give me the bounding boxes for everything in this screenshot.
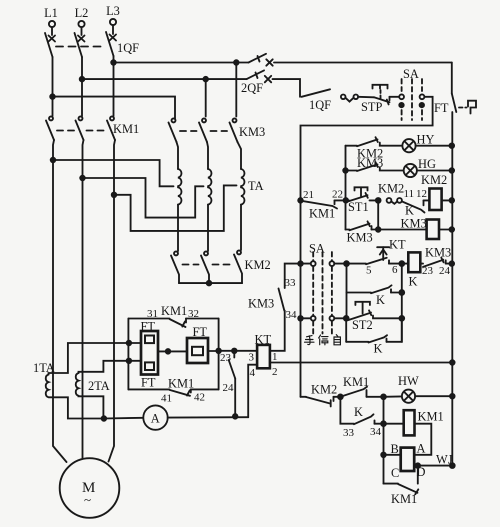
node KM2-branch junction bbox=[376, 198, 381, 203]
svg-text:KM1: KM1 bbox=[161, 304, 187, 318]
svg-text:1QF: 1QF bbox=[117, 41, 139, 55]
wire phase A vertical (1QF to KM1) bbox=[52, 57, 54, 116]
svg-text:SA: SA bbox=[403, 67, 419, 81]
contact K self-hold (lower) bbox=[346, 335, 387, 355]
transformer TA coil1 bbox=[178, 169, 181, 205]
wire column A (under node 346.5) bbox=[346, 264, 348, 319]
wire K lower to column B bbox=[387, 318, 402, 342]
thermal relay FT contact (right rail) bbox=[434, 63, 476, 466]
svg-text:KM2: KM2 bbox=[311, 383, 337, 397]
node L1 terminal bbox=[44, 6, 58, 35]
wire HW to rail bbox=[415, 395, 452, 397]
contact KM1 self-hold bbox=[340, 375, 383, 397]
contact KM2 NC (11-12 row) bbox=[378, 182, 404, 204]
pushbutton STP (stop) bbox=[361, 85, 390, 114]
svg-text:5: 5 bbox=[366, 265, 372, 277]
contact KM3 23-24 bbox=[420, 246, 451, 277]
wire row-A to KM3 33 branch bbox=[285, 264, 301, 288]
node 23 junction bbox=[232, 349, 237, 354]
svg-text:KM1: KM1 bbox=[113, 122, 139, 136]
wire TA tap2 bbox=[83, 178, 204, 218]
svg-text:~: ~ bbox=[84, 492, 91, 507]
coil KM3 bbox=[401, 217, 440, 240]
wire L3 line to right rail bbox=[274, 62, 452, 64]
svg-text:KM3: KM3 bbox=[401, 217, 427, 231]
contact KM1 21-22 bbox=[301, 189, 344, 221]
wire phase B vertical (1QF to KM1) bbox=[81, 57, 83, 116]
svg-text:2QF: 2QF bbox=[241, 81, 263, 95]
svg-text:KM1: KM1 bbox=[168, 377, 194, 391]
contact KM1 NC (bottom loop) bbox=[384, 466, 419, 506]
contactor KM1 main poles bbox=[46, 116, 139, 140]
wire KT pin4 bbox=[248, 365, 257, 418]
wire KM3 pole3 feed bbox=[235, 63, 237, 117]
svg-text:33: 33 bbox=[285, 277, 297, 289]
wire motor line A bbox=[53, 140, 67, 462]
glyph hand (shou) bbox=[305, 336, 315, 345]
svg-text:KM3: KM3 bbox=[248, 297, 274, 311]
wire L2 line to control feed corner bbox=[273, 79, 301, 97]
svg-text:24: 24 bbox=[439, 265, 451, 277]
svg-text:HY: HY bbox=[417, 133, 435, 147]
node TA tap1 junction bbox=[51, 158, 56, 163]
wire lamp sub-rail bbox=[345, 146, 347, 230]
contact KM1 31-32 (box top) bbox=[128, 304, 218, 327]
node K branch junction bbox=[399, 261, 404, 266]
node SA row-A rail junction bbox=[298, 261, 303, 266]
wire KM1 coil to WJ A terminal bbox=[414, 424, 431, 455]
svg-text:FT: FT bbox=[434, 101, 449, 115]
label SA handle positions bbox=[305, 335, 341, 345]
wire phase C vertical (1QF to KM1) bbox=[113, 56, 115, 116]
svg-text:ST1: ST1 bbox=[348, 200, 369, 214]
transformer TA coil2 bbox=[208, 169, 211, 205]
wire KM3 coil to rail bbox=[439, 229, 452, 231]
motor M bbox=[60, 458, 120, 518]
node HY rail junction bbox=[450, 143, 455, 148]
wire to KM1 coil bbox=[384, 423, 404, 425]
node SA row-B rail junction bbox=[298, 316, 303, 321]
svg-text:34: 34 bbox=[286, 309, 298, 321]
node K row rail junction bbox=[450, 261, 455, 266]
lamp HG row: contact KM3 bbox=[346, 156, 404, 171]
svg-text:K: K bbox=[374, 342, 383, 356]
transformer 2TA secondary loop bbox=[76, 361, 129, 419]
svg-text:K: K bbox=[376, 293, 385, 307]
wire motor line C bbox=[109, 140, 116, 462]
wire KT pin3 bbox=[219, 350, 258, 352]
svg-text:HW: HW bbox=[398, 374, 419, 388]
wire KM2 star bus bbox=[179, 282, 242, 284]
svg-text:3: 3 bbox=[249, 352, 255, 364]
transformer 1TA secondary loop bbox=[33, 343, 129, 419]
coil K bbox=[408, 252, 420, 288]
node TA tap3 junction bbox=[112, 193, 117, 198]
node L2 branch junction bbox=[80, 77, 85, 82]
heater FT element 1 (double) bbox=[127, 320, 171, 390]
svg-text:KM3: KM3 bbox=[425, 246, 451, 260]
node KM3 coil branch junction bbox=[376, 227, 381, 232]
svg-text:A: A bbox=[151, 412, 160, 426]
svg-text:KM3: KM3 bbox=[239, 125, 265, 139]
svg-text:24: 24 bbox=[223, 382, 235, 394]
wire ammeter right to KT pin4 bbox=[168, 416, 249, 418]
svg-text:KM2: KM2 bbox=[421, 173, 447, 187]
node WJ B junction bbox=[381, 453, 386, 458]
svg-text:KM1: KM1 bbox=[418, 410, 444, 424]
node L1 branch junction bbox=[50, 94, 55, 99]
svg-text:KM3: KM3 bbox=[347, 231, 373, 245]
node KM2/KM1 junction bbox=[338, 394, 343, 399]
node KM1 row left rail junction bbox=[298, 198, 303, 203]
wire STP to SA bbox=[390, 96, 400, 98]
wire to HW lamp bbox=[384, 395, 402, 397]
switch SA dashed position lines bbox=[313, 252, 332, 334]
wire 6 to K coil bbox=[389, 263, 408, 265]
wire TA coil2 to KM2 pole2 bbox=[207, 205, 209, 251]
svg-text:31: 31 bbox=[147, 308, 158, 320]
transformer TA coil3 bbox=[241, 169, 244, 205]
wire KM3 pole1 to TA coil1 bbox=[177, 142, 179, 169]
contact KM3 33-34 bbox=[248, 289, 297, 322]
wire branch down to KM3 coil row bbox=[377, 200, 379, 229]
switch SA row-B contacts bbox=[301, 316, 347, 321]
lamp HW bbox=[398, 374, 419, 403]
wire TA tap1 bbox=[53, 160, 174, 186]
svg-text:HG: HG bbox=[418, 157, 436, 171]
node KM3 pole2 tap junction bbox=[203, 77, 208, 82]
svg-text:K: K bbox=[405, 204, 414, 218]
node row-A column junction bbox=[344, 261, 349, 266]
wire 1QF to STP bbox=[358, 96, 374, 99]
node row-B column junction bbox=[344, 316, 349, 321]
node D loop junction bbox=[416, 463, 421, 468]
glyph auto (zi) bbox=[334, 335, 340, 345]
wire column B (under node 401.8) bbox=[401, 264, 403, 342]
node L3 terminal bbox=[106, 4, 120, 34]
contact KM1 41-42 (box bottom) bbox=[128, 377, 218, 405]
svg-text:11: 11 bbox=[404, 188, 415, 200]
wire ammeter left bbox=[104, 417, 143, 420]
svg-text:4: 4 bbox=[250, 367, 256, 379]
wire 12 to KM2 coil bbox=[424, 199, 430, 201]
wire KM3 contact to coil bbox=[372, 229, 427, 231]
wire 22 to sub-rail node bbox=[335, 199, 350, 201]
node K row column junction bbox=[399, 290, 404, 295]
svg-text:KM2: KM2 bbox=[378, 182, 404, 196]
wire KM3 pole2 feed bbox=[205, 79, 207, 116]
wire ST1 to node bbox=[370, 199, 379, 201]
wire TA coil1 to KM2 pole1 bbox=[177, 205, 179, 251]
wire KM3 pole2 to TA coil2 bbox=[207, 142, 208, 169]
wire KT pin2 to rail bbox=[270, 362, 452, 364]
contact KM3 self-hold bbox=[346, 221, 373, 244]
node ammeter wire junction bbox=[233, 414, 238, 419]
svg-text:L2: L2 bbox=[75, 6, 89, 20]
node HG sub-rail junction bbox=[343, 168, 348, 173]
svg-text:1QF: 1QF bbox=[309, 98, 331, 112]
svg-text:KM1: KM1 bbox=[391, 492, 417, 506]
heater FT element 2 bbox=[168, 325, 219, 363]
svg-text:22: 22 bbox=[332, 189, 343, 201]
glyph stop (ting) bbox=[319, 335, 328, 345]
contact KT delayed (5-6) bbox=[347, 238, 406, 277]
lamp HY row: contact KM2 bbox=[346, 137, 403, 160]
coil KT bbox=[249, 333, 278, 380]
node KM2 star junction bbox=[207, 281, 212, 286]
contact K self-hold (upper) bbox=[347, 285, 392, 307]
svg-text:KM1: KM1 bbox=[309, 207, 335, 221]
node HG rail junction bbox=[450, 168, 455, 173]
node ST2 column junction bbox=[399, 316, 404, 321]
wire HY to right rail bbox=[416, 145, 452, 147]
wire K contact to column B bbox=[391, 292, 402, 294]
contact K (11-12) bbox=[402, 188, 427, 218]
wire KM3 pole3 to TA coil3 bbox=[238, 142, 242, 169]
svg-text:A: A bbox=[417, 442, 426, 456]
ammeter A bbox=[143, 405, 167, 429]
lamp HG bbox=[404, 157, 436, 177]
wire FT box left edge bbox=[127, 319, 129, 390]
node sub-rail/ST1 junction bbox=[344, 198, 349, 203]
wire KM3 pole1 feed bbox=[53, 97, 176, 120]
node TA tap2 junction bbox=[80, 176, 85, 181]
wire column A lower bbox=[345, 318, 347, 342]
node WJ rail junction bbox=[450, 463, 455, 468]
node L3 branch junction bbox=[111, 60, 116, 65]
svg-text:KT: KT bbox=[389, 238, 406, 252]
svg-text:42: 42 bbox=[194, 392, 205, 404]
svg-text:K: K bbox=[354, 405, 363, 419]
contact K 33-34 bbox=[343, 405, 384, 439]
node KM2 coil rail junction bbox=[450, 198, 455, 203]
svg-text:34: 34 bbox=[370, 426, 382, 438]
wire KM2 coil to rail bbox=[441, 199, 451, 201]
contactor KM2 star poles bbox=[171, 250, 271, 283]
wire motor line B bbox=[83, 140, 84, 458]
wire KM2 node down bbox=[340, 397, 354, 424]
wire L2 feed to 2QF bbox=[82, 78, 247, 80]
svg-text:KM2: KM2 bbox=[245, 258, 271, 272]
contact KM2 NC (bottom row) bbox=[301, 383, 341, 407]
node 2TA ammeter junction bbox=[102, 416, 107, 421]
svg-text:L3: L3 bbox=[106, 4, 120, 18]
svg-text:B: B bbox=[391, 442, 399, 456]
wire TA coil3 to KM2 pole3 bbox=[240, 205, 242, 250]
wire SA output to control left rail bbox=[301, 97, 433, 397]
wire FT box right edge bbox=[218, 319, 220, 390]
svg-text:41: 41 bbox=[161, 393, 172, 405]
svg-text:1TA: 1TA bbox=[33, 361, 55, 375]
contact KT 23-24 bbox=[220, 351, 235, 417]
svg-text:L1: L1 bbox=[44, 6, 58, 20]
svg-text:6: 6 bbox=[392, 264, 398, 276]
coil KM1 bbox=[404, 410, 444, 436]
svg-text:1: 1 bbox=[272, 351, 278, 363]
pushbutton ST1 (start) bbox=[347, 187, 369, 214]
pushbutton ST2 bbox=[349, 302, 373, 332]
wire HG to right rail bbox=[417, 170, 452, 172]
svg-text:ST2: ST2 bbox=[352, 318, 373, 332]
svg-text:2TA: 2TA bbox=[88, 379, 110, 393]
breaker 1QF (3-pole) bbox=[45, 32, 139, 57]
svg-text:21: 21 bbox=[303, 189, 314, 201]
node KT pin2 rail junction bbox=[450, 360, 455, 365]
wire ST2 to column B bbox=[373, 316, 402, 319]
node HW branch junction bbox=[381, 394, 386, 399]
svg-text:23: 23 bbox=[422, 265, 434, 277]
wire HW node down bbox=[383, 397, 385, 484]
svg-text:TA: TA bbox=[248, 179, 264, 193]
node KM1 coil junction bbox=[381, 421, 386, 426]
node FT box right mid junction bbox=[216, 349, 221, 354]
svg-text:FT: FT bbox=[141, 376, 156, 390]
wire TA tap3 bbox=[114, 185, 237, 231]
node KM3 coil rail junction bbox=[450, 227, 455, 232]
wire WJ D terminal to rail bbox=[414, 465, 452, 467]
svg-text:33: 33 bbox=[343, 427, 355, 439]
relay WJ block bbox=[391, 442, 426, 481]
svg-text:STP: STP bbox=[361, 100, 382, 114]
coil KM2 bbox=[421, 173, 447, 210]
node 2QF tap junction bbox=[234, 60, 239, 65]
breaker 2QF (2-pole) bbox=[241, 54, 273, 95]
wire WJ B terminal bbox=[384, 454, 401, 456]
wire 34 to KT pin1 bbox=[270, 311, 285, 351]
switch 1QF control contact bbox=[302, 89, 359, 112]
svg-text:K: K bbox=[409, 275, 418, 289]
node L2 terminal bbox=[75, 6, 89, 35]
contactor KM3 main poles bbox=[169, 118, 266, 142]
switch SA selector contacts (control feed) bbox=[399, 67, 424, 120]
switch SA row-A contacts bbox=[301, 242, 347, 267]
svg-text:C: C bbox=[391, 466, 399, 480]
svg-text:12: 12 bbox=[416, 188, 427, 200]
node HW rail junction bbox=[450, 394, 455, 399]
wire 24 to rail bbox=[446, 263, 452, 265]
svg-text:2: 2 bbox=[272, 366, 278, 378]
lamp HY bbox=[402, 133, 434, 153]
wire L3 feed to 2QF bbox=[114, 62, 249, 64]
